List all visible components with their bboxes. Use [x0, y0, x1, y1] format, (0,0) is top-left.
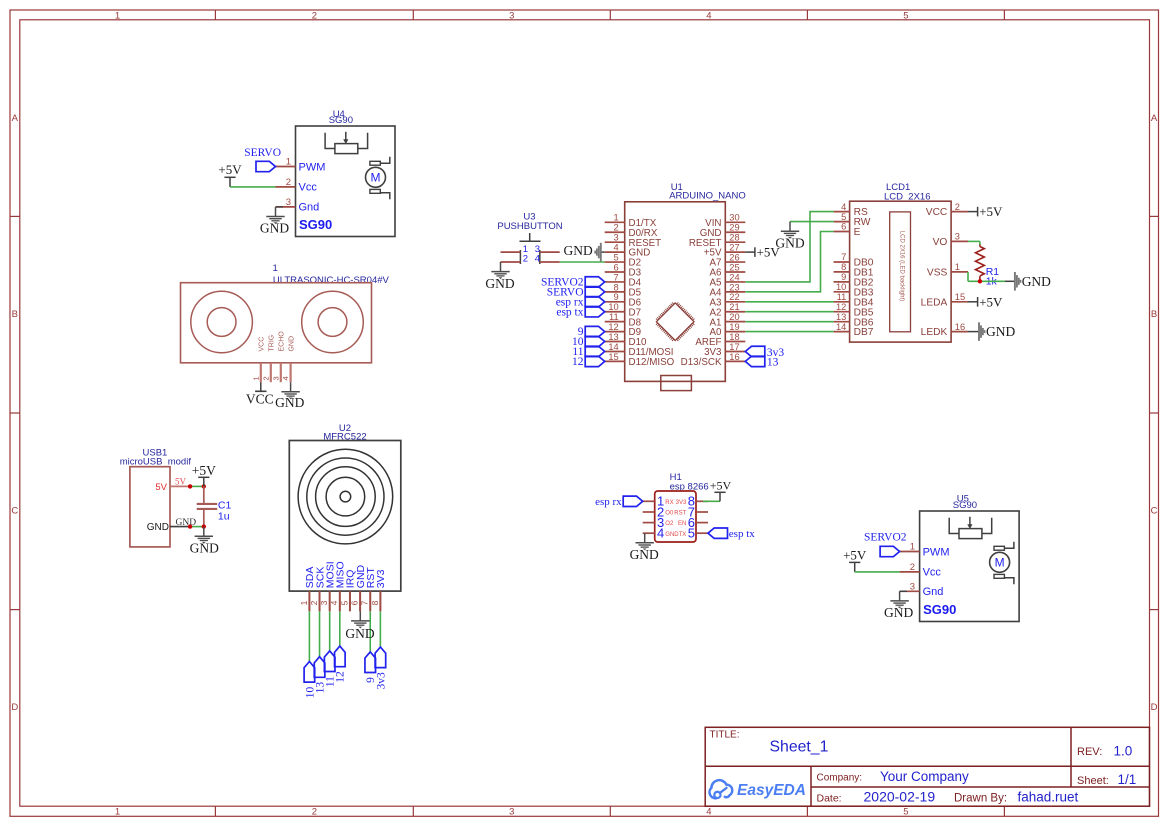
svg-text:1: 1 [614, 213, 619, 223]
net flag 11 [324, 651, 336, 687]
svg-text:VCC: VCC [926, 207, 948, 218]
svg-text:Sheet:: Sheet: [1077, 775, 1109, 787]
svg-text:GND: GND [190, 540, 219, 555]
svg-text:3: 3 [614, 233, 619, 243]
svg-text:Gnd: Gnd [299, 202, 320, 214]
svg-text:12: 12 [608, 322, 618, 332]
title block [705, 727, 1149, 806]
svg-text:GND: GND [986, 324, 1015, 339]
ground GND (U5) [884, 591, 913, 620]
wire MFRC522 pin3 to flag 11 [329, 611, 331, 651]
wire MFRC522 pin8 to flag 3v3 [379, 611, 381, 647]
svg-text:O2: O2 [665, 521, 674, 527]
svg-text:8: 8 [370, 600, 380, 605]
svg-text:17: 17 [729, 342, 739, 352]
svg-text:LEDK: LEDK [921, 327, 948, 338]
svg-text:SG90: SG90 [953, 500, 977, 511]
module H1 esp 8266 [643, 472, 709, 542]
resistor R1 1k [976, 244, 1000, 287]
svg-text:esp rx: esp rx [595, 496, 622, 508]
svg-text:RST: RST [674, 511, 686, 517]
RFID module U2 MFRC522 [289, 423, 401, 612]
power VCC (ultrasonic pin1) [246, 382, 274, 406]
microcontroller U1 ARDUINO_NANO [605, 182, 746, 390]
svg-text:3: 3 [286, 197, 291, 208]
net flag 10 [304, 662, 316, 699]
svg-text:13: 13 [836, 312, 846, 322]
svg-text:E: E [854, 227, 861, 238]
svg-text:A: A [1151, 113, 1158, 124]
svg-text:GND: GND [288, 336, 295, 352]
wire MFRC522 pin1 to flag 10 [308, 611, 310, 661]
svg-text:25: 25 [729, 262, 739, 272]
svg-text:D12/MISO: D12/MISO [629, 357, 675, 368]
power +5V (U4) [218, 162, 242, 187]
svg-text:PWM: PWM [923, 546, 950, 558]
net flag 10 (U1 pin13) [572, 336, 605, 348]
svg-text:7: 7 [614, 272, 619, 282]
svg-text:27: 27 [729, 243, 739, 253]
svg-text:2: 2 [261, 376, 270, 380]
net flag esp tx (U1 pin10) [556, 306, 604, 318]
svg-text:29: 29 [729, 223, 739, 233]
svg-text:12: 12 [836, 302, 846, 312]
servo U5 SG90 [900, 494, 1020, 622]
svg-text:+5V: +5V [218, 162, 242, 177]
svg-text:2020-02-19: 2020-02-19 [864, 789, 936, 805]
power +5V (LCD LEDA) [968, 294, 1003, 309]
wire MFRC522 pin4 to flag 12 [339, 611, 341, 646]
net flag 3v3 [375, 647, 387, 689]
svg-text:5V: 5V [155, 482, 167, 493]
svg-text:esp tx: esp tx [556, 306, 583, 318]
ground GND (U4) [260, 207, 289, 235]
net flag 13 (U1 pin16) [745, 356, 778, 369]
wire U1 A1 to LCD DB6 [745, 321, 833, 323]
svg-text:EN: EN [678, 521, 686, 527]
svg-text:SG90: SG90 [299, 217, 332, 232]
wire MFRC522 pin2 to flag 13 [319, 611, 321, 656]
svg-text:1: 1 [299, 600, 309, 605]
svg-text:RX: RX [665, 500, 673, 506]
junction dots on GND net [188, 524, 206, 528]
svg-text:15: 15 [955, 292, 965, 302]
net flag 9 (U1 pin12) [578, 326, 605, 338]
svg-text:14: 14 [836, 322, 846, 332]
svg-text:TX: TX [679, 532, 687, 538]
wire U1 A5 to LCD RS [745, 212, 833, 282]
svg-text:Drawn By:: Drawn By: [954, 792, 1007, 804]
svg-text:GND: GND [564, 243, 593, 258]
svg-text:EasyEDA: EasyEDA [737, 782, 806, 799]
ground GND flag (LCD LEDK) [968, 322, 1015, 341]
svg-text:23: 23 [729, 282, 739, 292]
svg-text:D13/SCK: D13/SCK [681, 357, 722, 368]
svg-text:3: 3 [509, 806, 514, 817]
wire U1 A3 to LCD DB4 [745, 301, 833, 303]
svg-text:10: 10 [836, 282, 846, 292]
svg-text:Sheet_1: Sheet_1 [770, 739, 829, 756]
svg-text:5: 5 [688, 526, 695, 541]
svg-text:2: 2 [312, 806, 317, 817]
svg-text:3V3: 3V3 [375, 569, 387, 588]
svg-text:Your Company: Your Company [880, 769, 969, 784]
svg-text:SERVO2: SERVO2 [864, 532, 907, 544]
svg-text:1u: 1u [218, 510, 230, 522]
svg-text:26: 26 [729, 252, 739, 262]
svg-text:22: 22 [729, 292, 739, 302]
power +5V (U5) [843, 547, 867, 572]
svg-text:6: 6 [350, 600, 360, 605]
net flag 9 [365, 652, 377, 683]
net flag SERVO2 [864, 532, 907, 557]
svg-text:1: 1 [910, 542, 915, 553]
svg-text:4: 4 [841, 202, 846, 212]
svg-text:B: B [1151, 309, 1157, 320]
net flag esp rx [595, 496, 643, 508]
svg-text:SG90: SG90 [329, 115, 353, 126]
svg-text:GND: GND [884, 605, 913, 620]
svg-text:+5V: +5V [843, 547, 867, 562]
svg-text:Gnd: Gnd [923, 586, 944, 598]
svg-text:12: 12 [335, 671, 347, 683]
svg-text:4: 4 [329, 600, 339, 605]
net flag esp tx [708, 528, 755, 540]
svg-text:SG90: SG90 [923, 602, 956, 617]
svg-text:VCC: VCC [246, 391, 274, 406]
svg-text:VSS: VSS [927, 268, 948, 279]
net flag SERVO (U1 pin8) [547, 286, 605, 298]
svg-text:4: 4 [535, 254, 540, 265]
svg-text:+5V: +5V [192, 463, 216, 478]
net flag 11 (U1 pin14) [572, 346, 604, 358]
svg-text:4: 4 [614, 243, 619, 253]
wire U1 A2 to LCD DB5 [745, 311, 833, 313]
wire +5V to U5 Vcc [855, 571, 900, 573]
svg-text:ARDUINO_NANO: ARDUINO_NANO [669, 190, 746, 201]
svg-text:14: 14 [608, 342, 618, 352]
svg-text:DB7: DB7 [854, 327, 874, 338]
svg-text:11: 11 [609, 312, 619, 322]
junction dots on 5V net [188, 484, 206, 488]
svg-text:8: 8 [614, 282, 619, 292]
ground GND (U3 pin2) [485, 262, 514, 291]
svg-text:TITLE:: TITLE: [710, 730, 740, 741]
svg-text:5: 5 [903, 806, 908, 817]
svg-text:4: 4 [706, 806, 711, 817]
svg-text:30: 30 [729, 213, 739, 223]
wire LCD VSS to GND net [968, 272, 1005, 281]
ground GND (below C1) [190, 527, 219, 556]
svg-text:18: 18 [729, 332, 739, 342]
net flag 12 (U1 pin15) [572, 356, 605, 368]
svg-text:4: 4 [657, 526, 664, 541]
svg-text:2: 2 [523, 254, 528, 265]
svg-text:+5V: +5V [979, 294, 1003, 309]
wire U1 A4 to LCD E [745, 232, 833, 292]
servo U4 SG90 [276, 109, 396, 237]
svg-text:C: C [11, 506, 18, 517]
svg-text:GND: GND [775, 236, 804, 251]
net flag 13 [314, 657, 326, 694]
svg-text:24: 24 [729, 272, 739, 282]
svg-text:5: 5 [339, 600, 349, 605]
wire U1 A0 to LCD DB7 [745, 331, 833, 333]
wire H1 pin8 to +5V [703, 500, 720, 502]
net flag SERVO2 (U1 pin7) [541, 277, 605, 289]
svg-text:C: C [1151, 506, 1158, 517]
svg-text:GND: GND [485, 276, 514, 291]
wire net GND (USB to gnd) [170, 518, 204, 528]
pushbutton U3 [497, 211, 562, 264]
svg-text:SERVO: SERVO [244, 147, 281, 159]
svg-text:8: 8 [841, 262, 846, 272]
svg-text:3: 3 [509, 10, 514, 21]
ground GND (H1 pin4) [630, 533, 659, 562]
svg-text:6: 6 [614, 262, 619, 272]
svg-text:1: 1 [115, 10, 120, 21]
ultrasonic sensor 1 ULTRASONIC-HC-SR04#V [181, 263, 390, 382]
svg-text:5: 5 [841, 212, 846, 222]
svg-text:4: 4 [706, 10, 711, 21]
svg-text:16: 16 [729, 352, 739, 362]
ground GND flag (U1 pin4) [564, 243, 605, 262]
svg-text:D: D [1151, 702, 1158, 713]
svg-text:GND: GND [275, 395, 304, 410]
svg-text:5V: 5V [175, 477, 187, 487]
svg-text:1: 1 [286, 157, 291, 168]
svg-text:3: 3 [910, 581, 915, 592]
svg-text:GND: GND [630, 547, 659, 562]
svg-text:12: 12 [572, 356, 584, 368]
svg-text:+5V: +5V [979, 204, 1003, 219]
svg-text:fahad.ruet: fahad.ruet [1018, 790, 1079, 805]
wire U3 pin4 to U1 D2 [560, 261, 605, 263]
svg-text:19: 19 [729, 322, 739, 332]
svg-text:3: 3 [319, 600, 329, 605]
svg-text:1: 1 [955, 262, 960, 272]
svg-text:1.0: 1.0 [1114, 744, 1133, 759]
ground GND (ultrasonic pin4) [275, 382, 304, 410]
capacitor C1 1u [197, 486, 232, 526]
svg-text:1: 1 [251, 376, 260, 380]
svg-text:M: M [371, 171, 381, 185]
ground GND (RW net) [775, 222, 804, 251]
svg-text:6: 6 [841, 222, 846, 232]
svg-text:LCD 2X16 (LED backlight): LCD 2X16 (LED backlight) [899, 231, 905, 301]
LCD display LCD1 LCD_2X16 [834, 182, 968, 342]
svg-text:5: 5 [614, 252, 619, 262]
svg-text:2: 2 [309, 600, 319, 605]
net flag 12 [335, 646, 347, 683]
power +5V (USB) [192, 463, 216, 487]
svg-text:Company:: Company: [817, 772, 863, 783]
svg-text:GND: GND [260, 220, 289, 235]
svg-text:M: M [995, 556, 1005, 570]
wire LCD RW to GND [790, 221, 834, 223]
svg-text:GND: GND [665, 532, 679, 538]
connector USB1 microUSB_modif [120, 448, 192, 547]
svg-text:O0: O0 [665, 511, 674, 517]
svg-text:13: 13 [767, 357, 779, 369]
wire net 5V (USB to +5V) [170, 477, 204, 487]
svg-text:2: 2 [312, 10, 317, 21]
EasyEDA logo [710, 780, 806, 799]
svg-text:GND: GND [345, 626, 374, 641]
svg-text:15: 15 [608, 352, 618, 362]
svg-text:3V3: 3V3 [676, 500, 687, 506]
svg-text:GND: GND [147, 522, 169, 533]
svg-text:11: 11 [837, 292, 847, 302]
net flag esp rx (U1 pin9) [556, 296, 605, 308]
svg-text:3: 3 [271, 376, 280, 380]
ground GND (MFRC522 pin6) [345, 611, 374, 641]
wire +5V to U4 Vcc [230, 186, 276, 188]
svg-text:GND: GND [1022, 274, 1051, 289]
svg-text:3v3: 3v3 [375, 672, 387, 690]
svg-text:28: 28 [729, 233, 739, 243]
svg-text:2: 2 [286, 177, 291, 188]
svg-text:PWM: PWM [299, 161, 326, 173]
svg-text:20: 20 [729, 312, 739, 322]
svg-text:Vcc: Vcc [923, 567, 942, 579]
svg-text:esp tx: esp tx [729, 528, 755, 540]
junction dot R1/GND [978, 279, 982, 283]
wire LCD VO to R1 [968, 241, 980, 244]
svg-text:1: 1 [115, 806, 120, 817]
svg-text:1: 1 [273, 263, 278, 274]
svg-text:5: 5 [903, 10, 908, 21]
svg-text:VO: VO [933, 237, 948, 248]
svg-text:TRIG: TRIG [269, 335, 276, 352]
svg-text:ECHO: ECHO [279, 331, 286, 352]
svg-text:2: 2 [614, 223, 619, 233]
svg-text:16: 16 [955, 322, 965, 332]
svg-text:10: 10 [608, 302, 618, 312]
svg-text:Vcc: Vcc [299, 182, 318, 194]
svg-text:9: 9 [841, 272, 846, 282]
svg-text:7: 7 [360, 600, 370, 605]
svg-text:VCC: VCC [259, 337, 266, 352]
svg-text:2: 2 [955, 202, 960, 212]
svg-text:13: 13 [608, 332, 618, 342]
wire MFRC522 pin7 to flag 9 [369, 611, 371, 652]
svg-text:LEDA: LEDA [921, 297, 948, 308]
svg-text:21: 21 [729, 302, 739, 312]
svg-text:Date:: Date: [817, 792, 842, 804]
svg-text:2: 2 [910, 562, 915, 573]
svg-text:9: 9 [614, 292, 619, 302]
power +5V (LCD VCC) [968, 204, 1003, 219]
svg-text:3: 3 [955, 232, 960, 242]
svg-text:PUSHBUTTON: PUSHBUTTON [497, 221, 562, 232]
svg-text:7: 7 [841, 252, 846, 262]
svg-text:REV:: REV: [1077, 746, 1102, 758]
svg-text:4: 4 [281, 376, 290, 380]
ground GND flag (R1 bottom) [1005, 272, 1051, 291]
net flag 3v3 (U1 pin17) [745, 346, 784, 359]
svg-text:B: B [12, 309, 18, 320]
power +5V (H1) [710, 478, 732, 501]
svg-text:A: A [12, 113, 19, 124]
svg-text:1/1: 1/1 [1118, 772, 1137, 787]
svg-text:+5V: +5V [710, 478, 732, 492]
power +5V (U1 pin27) [745, 245, 780, 260]
net flag SERVO [244, 147, 281, 172]
svg-text:D: D [11, 702, 18, 713]
